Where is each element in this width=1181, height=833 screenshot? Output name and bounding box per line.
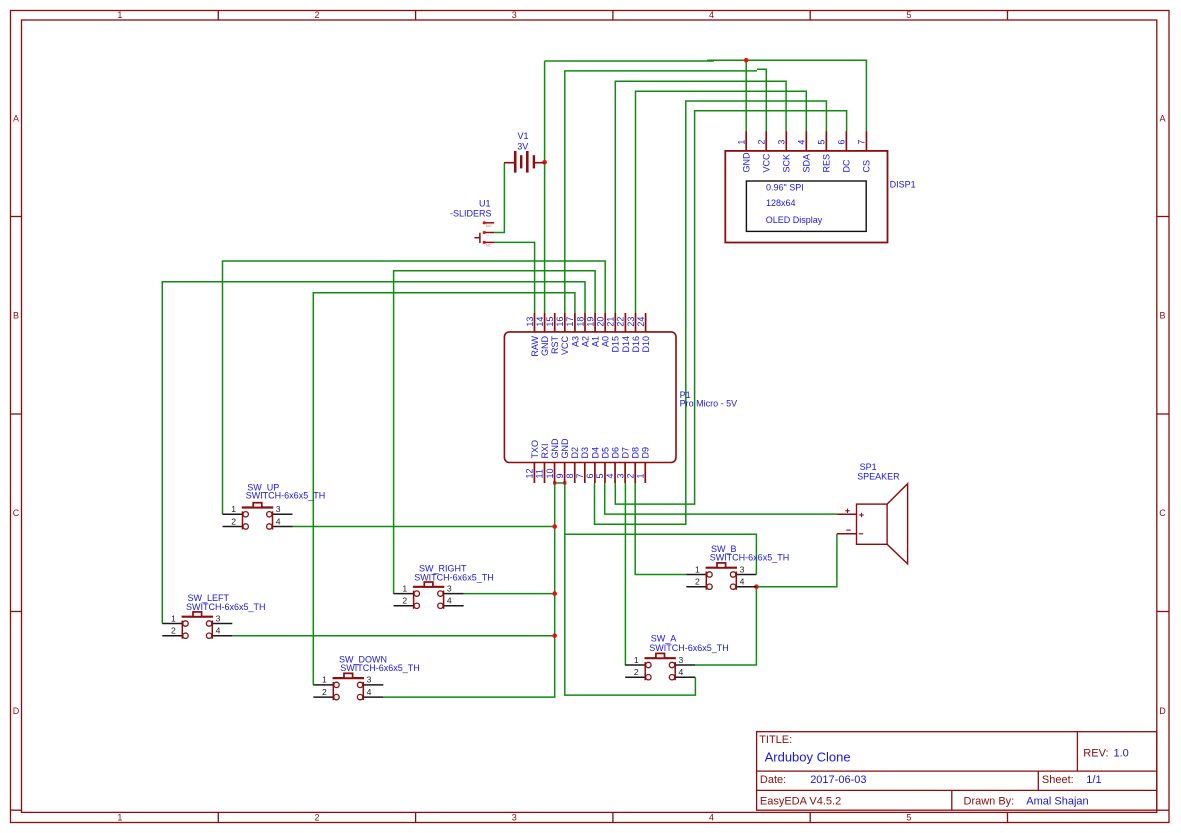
svg-text:13: 13 (525, 317, 535, 327)
svg-text:DISP1: DISP1 (890, 179, 916, 189)
svg-text:C: C (1159, 508, 1166, 518)
svg-text:20: 20 (596, 317, 606, 327)
svg-text:15: 15 (545, 317, 555, 327)
svg-text:10: 10 (545, 468, 555, 478)
svg-text:1: 1 (402, 583, 407, 593)
svg-text:4: 4 (276, 516, 281, 526)
svg-text:U1: U1 (479, 199, 491, 209)
svg-text:2: 2 (231, 516, 236, 526)
svg-text:2: 2 (695, 577, 700, 587)
svg-text:5: 5 (595, 473, 605, 478)
svg-text:3: 3 (447, 583, 452, 593)
svg-text:1: 1 (322, 675, 327, 685)
svg-text:D15: D15 (611, 336, 621, 353)
svg-text:3: 3 (512, 10, 517, 20)
svg-text:A2: A2 (580, 336, 590, 347)
svg-text:4: 4 (709, 10, 714, 20)
svg-text:1: 1 (117, 812, 122, 822)
svg-text:GND: GND (550, 438, 560, 459)
svg-text:V1: V1 (518, 131, 529, 141)
svg-text:-SLIDERS: -SLIDERS (450, 209, 492, 219)
svg-text:4: 4 (605, 473, 615, 478)
svg-text:Date:: Date: (760, 774, 786, 786)
svg-text:3: 3 (777, 140, 787, 145)
svg-text:2: 2 (402, 596, 407, 606)
svg-text:128x64: 128x64 (766, 198, 796, 208)
svg-text:7: 7 (857, 140, 867, 145)
svg-text:OLED Display: OLED Display (766, 215, 823, 225)
svg-text:GND: GND (741, 152, 751, 173)
svg-text:16: 16 (555, 317, 565, 327)
svg-text:19: 19 (585, 317, 595, 327)
svg-text:7: 7 (575, 473, 585, 478)
svg-text:D2: D2 (570, 447, 580, 459)
svg-text:Amal Shajan: Amal Shajan (1026, 796, 1088, 808)
svg-text:4: 4 (447, 596, 452, 606)
svg-text:14: 14 (535, 317, 545, 327)
svg-text:GND: GND (540, 336, 550, 357)
svg-text:22: 22 (616, 317, 626, 327)
svg-text:6: 6 (837, 140, 847, 145)
svg-text:D4: D4 (590, 447, 600, 459)
svg-text:D14: D14 (621, 336, 631, 353)
svg-text:Arduboy Clone: Arduboy Clone (765, 750, 851, 765)
svg-text:RES: RES (822, 154, 832, 173)
svg-text:1: 1 (634, 655, 639, 665)
svg-text:SWITCH-6x6x5_TH: SWITCH-6x6x5_TH (649, 643, 729, 653)
svg-text:3: 3 (679, 655, 684, 665)
svg-text:1: 1 (635, 473, 645, 478)
svg-text:TITLE:: TITLE: (759, 734, 792, 746)
svg-text:Sheet:: Sheet: (1042, 774, 1074, 786)
svg-text:REV:: REV: (1083, 748, 1108, 760)
svg-text:TXO: TXO (530, 440, 540, 459)
svg-text:NO: NO (486, 223, 492, 228)
svg-text:3: 3 (367, 675, 372, 685)
svg-text:4: 4 (679, 667, 684, 677)
svg-text:B: B (13, 310, 19, 320)
svg-text:DC: DC (842, 159, 852, 172)
svg-text:3: 3 (216, 613, 221, 623)
svg-text:1: 1 (171, 613, 176, 623)
svg-text:4: 4 (216, 626, 221, 636)
svg-text:1/1: 1/1 (1086, 774, 1101, 786)
svg-text:A3: A3 (570, 336, 580, 347)
svg-text:4: 4 (709, 812, 714, 822)
svg-text:3V: 3V (517, 142, 528, 152)
svg-text:D7: D7 (621, 447, 631, 459)
svg-text:A: A (1159, 113, 1165, 123)
svg-text:1: 1 (117, 10, 122, 20)
svg-text:24: 24 (636, 317, 646, 327)
svg-text:5: 5 (906, 812, 911, 822)
svg-text:VCC: VCC (560, 336, 570, 356)
svg-text:D16: D16 (631, 336, 641, 353)
svg-text:SWITCH-6x6x5_TH: SWITCH-6x6x5_TH (414, 573, 494, 583)
svg-text:1: 1 (737, 140, 747, 145)
svg-text:1: 1 (231, 504, 236, 514)
svg-text:D10: D10 (641, 336, 651, 353)
svg-text:6: 6 (585, 473, 595, 478)
svg-text:0.96" SPI: 0.96" SPI (766, 183, 804, 193)
svg-text:12: 12 (525, 468, 535, 478)
svg-text:D9: D9 (641, 447, 651, 459)
svg-text:4: 4 (740, 577, 745, 587)
svg-text:3: 3 (615, 473, 625, 478)
svg-text:CS: CS (862, 160, 872, 173)
svg-text:2: 2 (625, 473, 635, 478)
svg-text:SPEAKER: SPEAKER (857, 471, 900, 481)
svg-text:A: A (13, 113, 19, 123)
svg-text:NC: NC (486, 243, 492, 248)
svg-text:2: 2 (757, 140, 767, 145)
svg-text:SWITCH-6x6x5_TH: SWITCH-6x6x5_TH (186, 602, 266, 612)
svg-text:3: 3 (740, 564, 745, 574)
svg-text:8: 8 (565, 473, 575, 478)
svg-text:2: 2 (322, 687, 327, 697)
svg-text:11: 11 (535, 469, 545, 478)
svg-text:17: 17 (565, 317, 575, 327)
svg-text:SCK: SCK (781, 154, 791, 173)
svg-text:21: 21 (606, 317, 616, 327)
svg-text:1: 1 (695, 564, 700, 574)
svg-text:A0: A0 (601, 336, 611, 347)
svg-text:D8: D8 (631, 447, 641, 459)
svg-text:EasyEDA V4.5.2: EasyEDA V4.5.2 (760, 796, 841, 808)
svg-text:2: 2 (171, 626, 176, 636)
svg-text:Drawn By:: Drawn By: (964, 796, 1015, 808)
svg-text:Pro Micro - 5V: Pro Micro - 5V (680, 399, 738, 409)
svg-text:4: 4 (367, 687, 372, 697)
svg-text:SWITCH-6x6x5_TH: SWITCH-6x6x5_TH (246, 491, 326, 501)
svg-text:3: 3 (276, 504, 281, 514)
svg-text:2: 2 (314, 812, 319, 822)
svg-text:A1: A1 (591, 336, 601, 347)
svg-text:RAW: RAW (530, 336, 540, 357)
svg-text:2017-06-03: 2017-06-03 (810, 774, 866, 786)
svg-text:9: 9 (555, 473, 565, 478)
svg-text:1.0: 1.0 (1114, 748, 1129, 760)
svg-text:RXI: RXI (540, 443, 550, 458)
svg-text:5: 5 (817, 140, 827, 145)
svg-text:SWITCH-6x6x5_TH: SWITCH-6x6x5_TH (710, 553, 790, 563)
svg-text:D: D (1159, 706, 1166, 716)
svg-text:SDA: SDA (802, 154, 812, 173)
svg-text:2: 2 (314, 10, 319, 20)
svg-text:4: 4 (797, 140, 807, 145)
svg-text:SWITCH-6x6x5_TH: SWITCH-6x6x5_TH (340, 663, 420, 673)
svg-text:D3: D3 (580, 447, 590, 459)
svg-text:D6: D6 (610, 447, 620, 459)
svg-text:B: B (1159, 310, 1165, 320)
svg-text:2: 2 (634, 667, 639, 677)
svg-text:D5: D5 (600, 447, 610, 459)
svg-text:3: 3 (512, 812, 517, 822)
svg-text:RST: RST (550, 335, 560, 354)
svg-text:GND: GND (560, 438, 570, 459)
svg-text:C: C (13, 508, 20, 518)
svg-text:23: 23 (626, 317, 636, 327)
svg-text:VCC: VCC (761, 153, 771, 173)
svg-text:5: 5 (906, 10, 911, 20)
svg-text:18: 18 (575, 317, 585, 327)
svg-text:D: D (13, 706, 20, 716)
